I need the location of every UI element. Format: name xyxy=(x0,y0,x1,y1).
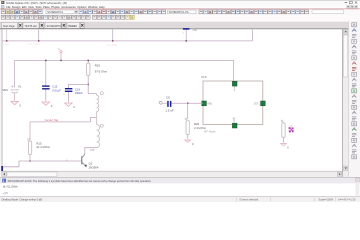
wire: left port wire xyxy=(171,102,203,104)
svg-text:N005: N005 xyxy=(3,42,10,46)
resistor R15 xyxy=(28,141,31,155)
wire: R16 to ground xyxy=(187,134,189,138)
resistor R16 xyxy=(186,121,189,135)
svg-text:Start Page: Start Page xyxy=(3,25,15,28)
wire: C15 to ground xyxy=(45,90,47,101)
wire: stub up at x38.7 xyxy=(38,29,40,41)
svg-text:BUF: BUF xyxy=(202,75,208,79)
wire: V+ rail right end down to top port xyxy=(233,60,235,82)
svg-text:Drafting Mode: Change select 0: Drafting Mode: Change select 0 dB xyxy=(2,198,43,202)
svg-text:dt: N1_5Vdb: dt: N1_5Vdb xyxy=(3,185,18,189)
ground 0 under C16 xyxy=(67,102,69,103)
junction R16 tap xyxy=(187,103,188,104)
svg-text:VDC: VDC xyxy=(2,88,8,92)
svg-text:N1_5Vdb: N1_5Vdb xyxy=(107,43,118,47)
svg-text:N1_5Vdb: N1_5Vdb xyxy=(29,42,40,46)
svg-text:1uF: 1uF xyxy=(192,28,197,32)
svg-text:PAGE1: PAGE1 xyxy=(69,25,78,28)
capacitor C15 xyxy=(42,85,50,86)
inductor L_a (upper winding) xyxy=(97,94,99,118)
junction at stub x6.7 on top rail xyxy=(6,40,7,41)
svg-text:File Design Edit View Tool: File Design Edit View Tools Place PSpice… xyxy=(6,5,105,9)
svg-text:VIN1: VIN1 xyxy=(207,104,213,106)
svg-text:OrCAD Capture CIS - [/SCH - (S: OrCAD Capture CIS - [/SCH - (SCH: schema… xyxy=(6,2,67,5)
phase dot lower xyxy=(100,124,103,127)
svg-text:R19: R19 xyxy=(95,64,101,68)
wire: base rail xyxy=(19,160,82,162)
wire: rail to R19 top xyxy=(87,60,89,63)
svg-text:SCHEMATIC1-PA: SCHEMATIC1-PA xyxy=(169,11,189,14)
svg-text:0.01uF: 0.01uF xyxy=(52,89,61,93)
svg-text:V1: V1 xyxy=(18,84,22,88)
wire: C16 to ground xyxy=(67,92,69,102)
resistor R17 xyxy=(282,123,285,137)
capacitor C16 xyxy=(65,88,73,89)
wire: C6 left lead xyxy=(163,102,167,104)
ground 0 under V1 xyxy=(14,100,16,101)
wire: down to R16 xyxy=(187,103,189,119)
svg-text:OUT1: OUT1 xyxy=(254,104,261,106)
R15 pin hook xyxy=(28,139,30,141)
hierarchical block BUF xyxy=(203,81,263,125)
open pin bubble xyxy=(160,102,163,105)
junction cap/top rail xyxy=(186,40,187,41)
wire: stub up at x112.7 xyxy=(112,29,114,41)
svg-text:i: i xyxy=(3,179,4,183)
svg-text:2N3904: 2N3904 xyxy=(89,166,99,170)
ground 0 under R17 xyxy=(283,142,285,143)
svg-text:X=4.40 Y=1.30: X=4.40 Y=1.30 xyxy=(338,198,356,202)
wire: V1 to ground xyxy=(14,93,16,100)
wire: rail corner down-left xyxy=(3,161,19,167)
wire: center tap down to R15 xyxy=(29,122,31,140)
wire: node to L_a top xyxy=(88,85,97,94)
wire: L_b bottom to Q1 collector xyxy=(85,148,97,155)
hierarchical pin (top) xyxy=(232,81,237,86)
hierarchical pin (right) OUT xyxy=(261,101,266,106)
junction V+ on rail xyxy=(60,60,61,61)
transistor Q1 2N3904 xyxy=(81,156,83,164)
svg-text:97.6 Ohm: 97.6 Ohm xyxy=(95,69,108,73)
wire: top horizontal rail xyxy=(2,40,252,42)
junction x38.7 top rail xyxy=(38,40,39,41)
svg-text:RF Node: RF Node xyxy=(204,129,216,133)
svg-text:SCHEMATIC1: SCHEMATIC1 xyxy=(47,11,64,14)
wire: center tap rail xyxy=(30,121,90,123)
wire: R15 bottom to base rail xyxy=(29,155,31,162)
phase dot upper xyxy=(100,92,103,95)
hierarchical pin (left) VIN xyxy=(202,101,207,106)
svg-text:SCHEMATIC1: SCHEMATIC1 xyxy=(47,25,64,28)
R17 pin hook xyxy=(281,120,283,122)
capacitor C6 (series) xyxy=(167,101,169,107)
svg-text:21.4 kOhm: 21.4 kOhm xyxy=(36,145,50,149)
hierarchical pin (bottom) xyxy=(232,123,237,128)
power symbol V+ xyxy=(60,53,62,61)
wire: cap down to top rail xyxy=(185,30,187,41)
svg-text:C6: C6 xyxy=(166,95,170,99)
svg-text:0 items selected: 0 items selected xyxy=(240,198,259,202)
capacitor C14 (top, clipped) xyxy=(183,28,190,30)
schematic page border (left edge) xyxy=(1,29,4,171)
wire: rail to C15 xyxy=(45,60,47,85)
svg-text:+ [0]: + [0] xyxy=(2,191,7,195)
vdb marker (magenta) xyxy=(289,127,294,132)
wire: node to C16 top xyxy=(68,85,88,89)
wire: R19 bottom down xyxy=(87,76,89,85)
junction x112.7 top rail xyxy=(112,40,113,41)
wire: top rail right end turns up xyxy=(252,29,254,41)
junction R19-bottom node xyxy=(88,84,89,85)
ground 0 under C15 xyxy=(45,101,47,102)
off-page connector (left) xyxy=(1,166,3,171)
tick on base rail xyxy=(66,160,68,161)
wire: V+ rail left end down to V1 xyxy=(14,60,16,87)
junction R15/base rail xyxy=(29,160,30,161)
wire: V+ rail xyxy=(15,59,234,61)
svg-text:L5b: L5b xyxy=(90,148,95,152)
wire: stub up from top rail (grayed) xyxy=(6,29,8,41)
svg-text:Center Tap: Center Tap xyxy=(45,118,59,122)
resistor R19 xyxy=(87,63,90,75)
R16 pin hook xyxy=(185,118,187,120)
wire: R17 to ground xyxy=(283,137,285,142)
junction C15 on rail xyxy=(45,60,46,61)
svg-text:496uF: 496uF xyxy=(75,91,83,95)
svg-text:TEST5.dsn: TEST5.dsn xyxy=(25,25,38,28)
center tap jog xyxy=(90,117,96,122)
svg-text:INFO(ORCAP-2213): The followin: INFO(ORCAP-2213): The following 1 symbol… xyxy=(8,179,152,183)
ground 0 under R16 xyxy=(187,139,189,140)
svg-text:1.5 uF: 1.5 uF xyxy=(165,108,173,112)
junction R19 on rail xyxy=(88,60,89,61)
svg-text:Scale=100%: Scale=100% xyxy=(319,198,334,202)
inductor L_b (lower winding) xyxy=(97,117,100,147)
